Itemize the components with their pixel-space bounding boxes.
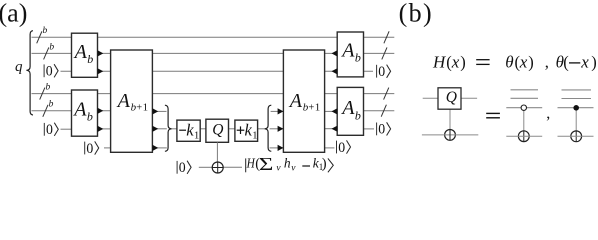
ket |0> w3 left bbox=[44, 64, 58, 80]
svg-text:): ) bbox=[460, 53, 466, 72]
triangle Ab+1 out r6 bbox=[152, 126, 158, 132]
ket |0> r7 right bbox=[337, 140, 351, 156]
b mini 3 control line bbox=[575, 108, 577, 131]
svg-text:b: b bbox=[355, 108, 361, 122]
slash w4 right bbox=[384, 88, 389, 100]
wire r6 -k1 to Q bbox=[200, 128, 206, 130]
box Ab+1 second bbox=[283, 50, 324, 152]
triangle Ab R1 w2 bbox=[332, 50, 338, 56]
svg-text:k: k bbox=[186, 120, 194, 139]
slash w2 right bbox=[382, 47, 387, 59]
svg-text:A: A bbox=[288, 90, 303, 112]
wire w3 bbox=[61, 70, 374, 72]
slash w4 left bbox=[40, 88, 45, 100]
wire r5 right of brace bbox=[271, 110, 284, 112]
svg-text:(b): (b) bbox=[399, 0, 434, 27]
triangle Ab L2 w6 bbox=[98, 126, 104, 132]
triangle into Ab+1 second r7 bbox=[278, 145, 284, 151]
svg-text:1: 1 bbox=[143, 102, 149, 114]
svg-text:H: H bbox=[432, 52, 447, 71]
svg-text:(a): (a) bbox=[0, 0, 27, 27]
triangle Ab+1 out r7 bbox=[152, 145, 158, 151]
svg-text:(: ( bbox=[563, 53, 569, 72]
triangle Ab+1 out r5 bbox=[152, 108, 158, 114]
wire r6 out of Ab+1 bbox=[152, 128, 166, 130]
svg-text:b: b bbox=[46, 83, 51, 93]
wire w6 right stub bbox=[364, 128, 375, 130]
b mini 1 bottom wire bbox=[422, 134, 478, 136]
svg-text:A: A bbox=[116, 90, 131, 112]
triangle Ab R2 r5 bbox=[332, 108, 338, 114]
slash w1 left bbox=[37, 31, 42, 43]
box Ab L2 bbox=[72, 90, 98, 136]
svg-text:): ) bbox=[591, 53, 597, 72]
svg-text:ν: ν bbox=[291, 163, 296, 173]
slash w2 left bbox=[44, 47, 49, 59]
ket |0> r7 left bbox=[85, 141, 99, 157]
brace open before Ab+1 second bbox=[265, 105, 272, 151]
wire r7 brace to tri bbox=[270, 147, 284, 149]
ket |0> w3 right bbox=[377, 64, 391, 80]
equation H(x) = theta(x), theta(-x) bbox=[432, 52, 597, 71]
svg-text:A: A bbox=[73, 41, 88, 63]
wire r6 cusp to -k1 bbox=[172, 128, 177, 130]
b mini 2 open control bbox=[521, 105, 526, 110]
wire w4 bbox=[32, 93, 395, 95]
svg-text:1: 1 bbox=[194, 130, 199, 141]
wire w5 right out bbox=[364, 110, 395, 112]
box Ab R2 bbox=[337, 87, 363, 135]
ket |0> w6 left bbox=[44, 122, 58, 138]
b mini 2 line1 bbox=[511, 89, 539, 91]
svg-text:θ: θ bbox=[505, 52, 513, 71]
b mini 1 wire top bbox=[423, 97, 477, 99]
triangle into Ab+1 second r6 bbox=[278, 126, 284, 132]
wire r6 Q to +k1 bbox=[229, 128, 235, 130]
b mini 2 line3 wire bbox=[506, 107, 542, 109]
triangle Ab R2 r6 bbox=[332, 126, 338, 132]
slash w5 right bbox=[381, 105, 386, 117]
b mini 2 bottom wire bbox=[506, 135, 542, 137]
triangle into Ab+1 second r5 bbox=[278, 108, 284, 114]
triangle Ab L1 w3 bbox=[98, 68, 104, 74]
svg-text:+: + bbox=[308, 103, 314, 114]
svg-text:,: , bbox=[545, 53, 549, 72]
svg-text:k: k bbox=[245, 120, 253, 139]
wire w1 bbox=[32, 36, 395, 38]
box Q mid bbox=[206, 119, 229, 142]
equals in b circuit bbox=[486, 112, 500, 114]
svg-text:ν: ν bbox=[276, 163, 281, 173]
wire r6 +k1 to brace bbox=[258, 128, 265, 130]
b mini 3 xor bbox=[571, 131, 582, 142]
brace close after Ab+1 bbox=[165, 105, 172, 151]
b mini 3 line2 bbox=[562, 98, 592, 100]
box Ab+1 first bbox=[111, 50, 153, 152]
wire w8 left bbox=[199, 166, 213, 168]
slash w1 right bbox=[384, 31, 389, 43]
wire r7 left stub bbox=[104, 147, 111, 149]
svg-text:q: q bbox=[15, 59, 23, 75]
wire r7 out of Ab+1 bbox=[152, 147, 166, 149]
wire r7 right stub bbox=[325, 147, 335, 149]
wire w8 right bbox=[223, 166, 242, 168]
b mini 3 line1 bbox=[562, 89, 592, 91]
ket |0> w8 bbox=[177, 160, 191, 176]
brace q left bbox=[26, 31, 33, 115]
b mini 1 xor bbox=[445, 130, 456, 141]
wire w6 Ab to Ab+1 bbox=[98, 128, 111, 130]
svg-text:x: x bbox=[580, 52, 589, 71]
triangle Ab L2 w5 bbox=[98, 108, 104, 114]
svg-text:b: b bbox=[355, 51, 361, 65]
svg-text:+: + bbox=[136, 103, 142, 114]
svg-text:Q: Q bbox=[446, 89, 457, 106]
wire w2 bbox=[32, 52, 395, 54]
label +k1 bbox=[237, 129, 245, 131]
control line Q to xor bbox=[216, 142, 218, 162]
box +k1 bbox=[235, 120, 258, 141]
xor target gate bbox=[212, 162, 223, 173]
svg-text:x: x bbox=[451, 52, 460, 71]
b mini 1 box Q bbox=[438, 88, 461, 109]
svg-text:b: b bbox=[43, 26, 48, 36]
svg-text:b: b bbox=[87, 52, 93, 66]
svg-text:A: A bbox=[340, 97, 355, 119]
box -k1 bbox=[177, 120, 200, 141]
b mini 2 line2 bbox=[511, 97, 539, 99]
b mini 2 xor bbox=[518, 131, 529, 142]
svg-text:b: b bbox=[49, 100, 54, 110]
svg-text:A: A bbox=[340, 39, 355, 61]
triangle Ab R1 w3 bbox=[332, 68, 338, 74]
svg-text:Q: Q bbox=[212, 121, 223, 138]
svg-text:b: b bbox=[87, 110, 93, 124]
svg-text:h: h bbox=[284, 156, 291, 171]
slash w5 left bbox=[43, 105, 48, 117]
wire r6 brace to tri bbox=[270, 128, 284, 130]
svg-text:1: 1 bbox=[315, 102, 321, 114]
wire r5 between Ab+1 and AbR2 bbox=[325, 110, 338, 112]
label -k1 bbox=[179, 129, 186, 131]
wire r5 mid bbox=[152, 110, 166, 112]
triangle Ab L1 w2 bbox=[98, 50, 104, 56]
b mini 1 control line bbox=[449, 109, 451, 130]
box Ab R1 bbox=[337, 32, 363, 77]
wire w6 left stub bbox=[61, 128, 72, 130]
svg-text:): ) bbox=[528, 53, 534, 72]
b mini 3 bottom wire bbox=[558, 135, 594, 137]
svg-text:,: , bbox=[546, 105, 550, 122]
svg-text:A: A bbox=[72, 99, 87, 121]
wire r6 Ab+1 to AbR2 bbox=[325, 128, 338, 130]
b mini 3 filled control bbox=[573, 105, 579, 111]
svg-text:b: b bbox=[49, 42, 54, 52]
wire w5 left bbox=[32, 110, 111, 112]
svg-text:): ) bbox=[322, 156, 327, 172]
svg-text:x: x bbox=[519, 52, 528, 71]
box Ab L1 bbox=[72, 33, 98, 77]
b mini 3 line3 wire bbox=[558, 107, 594, 109]
ket |0> w6 right bbox=[377, 122, 391, 138]
svg-text:1: 1 bbox=[252, 130, 257, 141]
svg-text:Σ: Σ bbox=[259, 155, 273, 175]
label |H(sum h - k1)> bbox=[246, 155, 334, 175]
b mini 2 control line bbox=[523, 108, 525, 131]
